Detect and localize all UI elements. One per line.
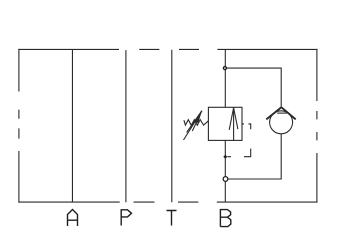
relief valve V1 flow arrow shaft xyxy=(233,107,235,140)
envelope left edge xyxy=(18,49,20,203)
port line T xyxy=(171,50,173,203)
wire B upper segment xyxy=(224,49,226,107)
relief valve V1 adjustment arrow head edges xyxy=(187,111,202,133)
relief valve V1 flow arrow head xyxy=(229,108,238,130)
pilot line dash 2 xyxy=(248,124,250,129)
envelope right edge xyxy=(316,49,318,203)
port line A xyxy=(71,49,73,202)
port line P xyxy=(125,50,127,202)
relief valve V1 adjustment arrow shaft xyxy=(184,111,202,140)
node junction circle lower xyxy=(223,177,228,182)
relief valve V1 adjustment arrow tip fill xyxy=(195,111,202,124)
envelope top edge xyxy=(18,48,317,50)
label port A xyxy=(68,210,78,227)
label port P xyxy=(121,210,131,226)
pilot line dash 3 xyxy=(244,149,251,157)
node junction dot on B line xyxy=(223,155,227,159)
pilot line dash 4 xyxy=(227,156,231,158)
relief valve V1 body xyxy=(208,107,242,140)
wire branch from check valve bottom xyxy=(225,134,281,179)
label port B xyxy=(220,210,230,227)
check valve CV1 seat wings xyxy=(266,107,295,119)
pilot line dash 1 xyxy=(242,123,244,125)
wire branch to check valve top xyxy=(225,68,281,107)
node junction circle upper xyxy=(223,67,226,70)
envelope bottom edge xyxy=(18,201,317,203)
check valve CV1 seat bar xyxy=(277,112,287,114)
relief valve V1 spring xyxy=(184,120,209,126)
check valve CV1 ball xyxy=(270,111,293,134)
wire B lower segment xyxy=(224,140,226,202)
label port T xyxy=(167,211,177,226)
